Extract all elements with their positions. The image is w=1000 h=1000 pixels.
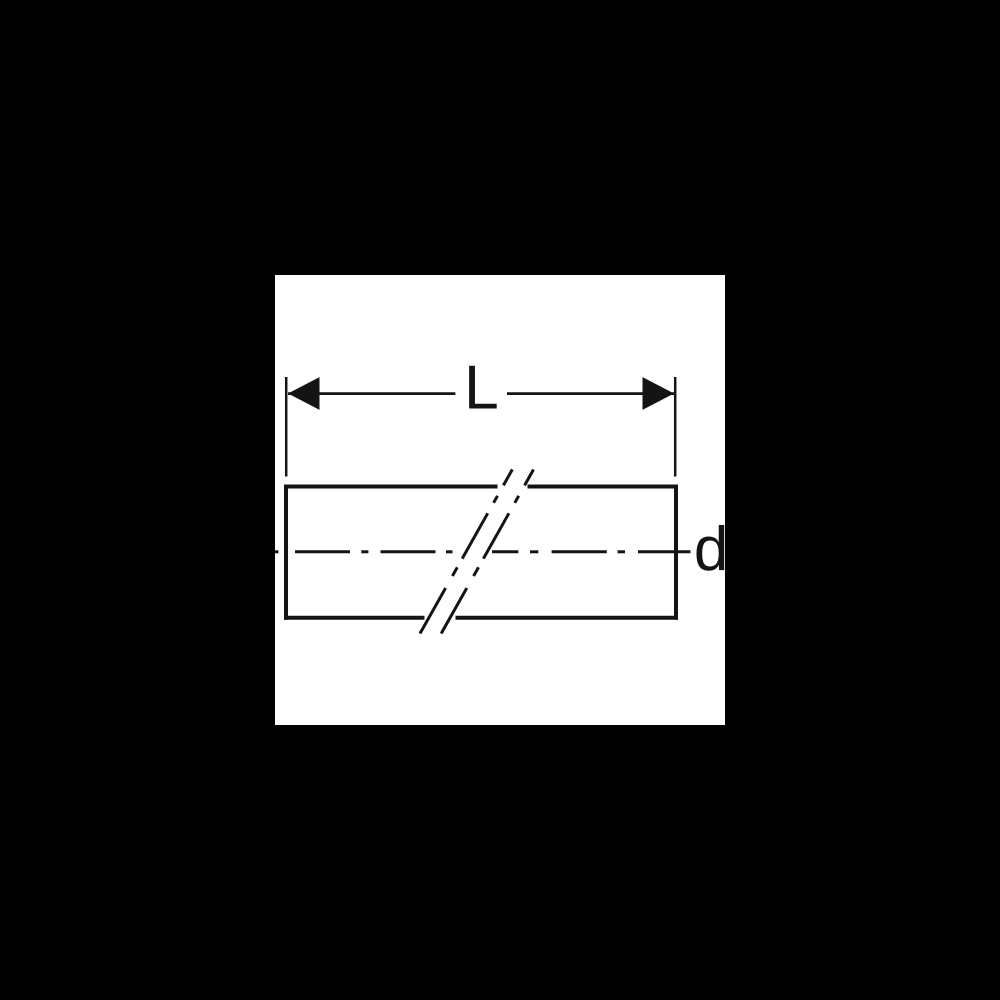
pipe body rectangle: top edge right part <box>528 485 679 489</box>
break line B seg 2 <box>474 567 479 576</box>
dimension line L left segment <box>288 392 455 395</box>
break line A seg 4 <box>494 496 498 503</box>
pipe body rectangle: top edge left part <box>284 485 498 489</box>
break line A seg 3 <box>462 513 488 558</box>
svg-text:L: L <box>464 352 499 422</box>
break line B seg 4 <box>515 496 519 503</box>
pipe body rectangle: bottom edge right part <box>456 616 679 620</box>
centerline dash 3 <box>361 550 368 553</box>
arrowhead right <box>643 377 675 410</box>
break line B seg 1 <box>441 588 467 634</box>
centerline dash 7 <box>530 550 538 553</box>
white drawing area <box>275 275 725 725</box>
break line B seg 5 <box>525 470 534 486</box>
break line B seg 3 <box>483 513 509 558</box>
centerline dash 6 <box>492 550 518 553</box>
centerline dash 8 <box>552 550 607 553</box>
arrowhead left <box>288 377 320 410</box>
pipe body rectangle: bottom edge left part <box>284 616 425 620</box>
centerline dash 5 <box>446 550 453 553</box>
break line A seg 1 <box>420 588 446 634</box>
extension line right <box>674 377 677 477</box>
centerline dash 1 <box>275 550 279 553</box>
centerline dash 10 <box>638 550 691 553</box>
pipe body rectangle: left edge <box>284 485 288 620</box>
break line A seg 5 <box>503 470 512 486</box>
pipe body rectangle: right edge <box>674 485 678 620</box>
svg-text:d: d <box>694 515 728 584</box>
centerline dash 2 <box>295 550 350 553</box>
dimension line L right segment <box>507 392 674 395</box>
extension line left <box>285 377 288 477</box>
centerline dash 4 <box>381 550 436 553</box>
break line A seg 2 <box>452 567 457 576</box>
centerline dash 9 <box>618 550 625 553</box>
